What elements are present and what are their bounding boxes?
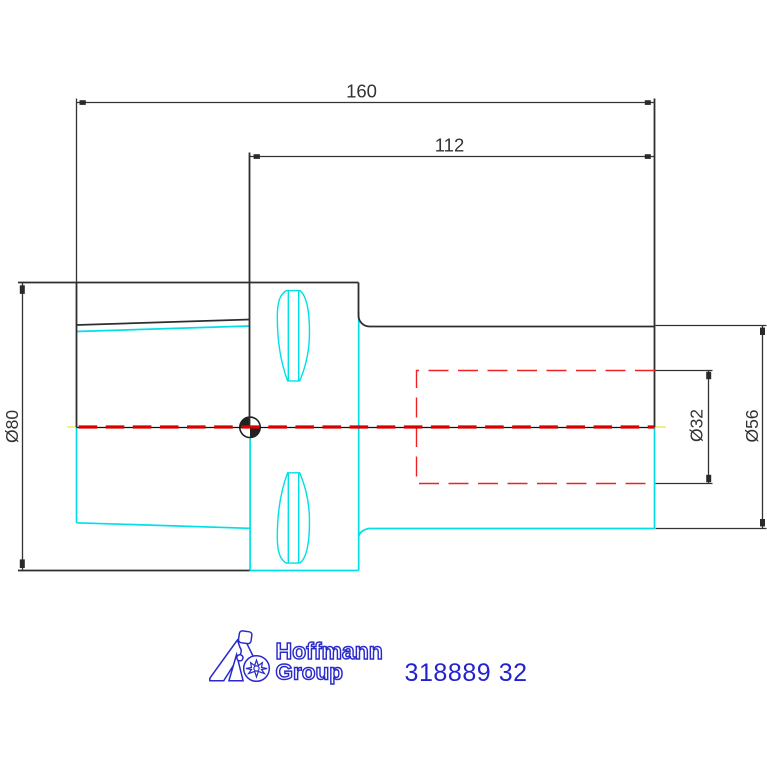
svg-text:Ø56: Ø56 [742,409,762,442]
svg-text:Group: Group [276,660,344,685]
svg-text:112: 112 [435,135,465,156]
centre-of-gravity symbol [240,417,260,437]
cyan mid vertical lower [249,427,251,571]
O56 ext+line [656,325,767,327]
thin centerline [77,427,655,429]
dimension texts [2,81,762,444]
yellow centerline end ticks [68,426,667,428]
112 [250,156,655,158]
O80 [22,283,24,571]
right vertical [654,99,656,428]
cyan bottom edge [250,570,359,572]
160 [77,102,655,104]
cyan bottom shoulder line [369,528,655,530]
svg-text:318889 32: 318889 32 [405,659,528,687]
dimension lines [23,99,767,571]
O32 ext+line [656,370,713,372]
Hoffmann Group logo mark [210,630,270,681]
part outline black [18,99,655,571]
svg-text:160: 160 [346,81,377,102]
slot top (cyan) [277,291,309,381]
Hoffmann Group wordmark [276,638,383,685]
taper black [77,320,250,326]
bottom edge [18,570,250,572]
slot bottom (cyan, mirrored) [277,473,309,563]
cyan collet/nut outline lower half [77,312,655,571]
red hidden bore [417,371,656,484]
cyan taper upper [77,326,250,332]
left vertical [76,283,78,428]
svg-text:Ø80: Ø80 [2,410,22,443]
step + fillet + shoulder [359,283,655,327]
arrow blobs [20,100,765,568]
cyan nut right vertical [358,312,360,571]
red centerline dashes [79,425,655,428]
top edge (with ext to dim) [18,282,359,284]
cyan taper lower [77,523,250,529]
cyan bottom fillet [359,529,369,537]
svg-text:Ø32: Ø32 [687,409,707,442]
cyan right vertical lower [654,427,656,529]
cyan left vertical lower [76,427,78,523]
112 extension / mid vertical [249,153,251,428]
